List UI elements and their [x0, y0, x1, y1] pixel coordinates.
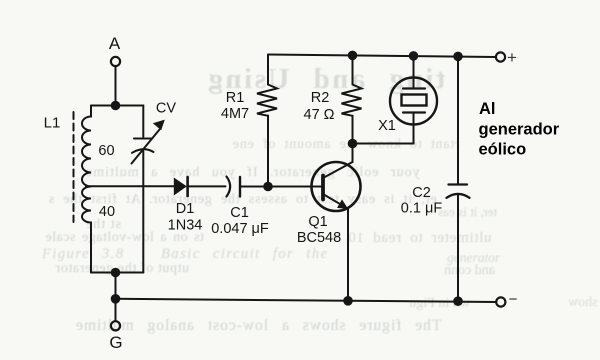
svg-text:G: G — [109, 333, 122, 352]
svg-text:0.1 μF: 0.1 μF — [401, 201, 443, 217]
svg-text:Q1: Q1 — [308, 214, 327, 230]
svg-text:CV: CV — [156, 101, 176, 117]
svg-text:X1: X1 — [378, 118, 396, 134]
svg-text:R1: R1 — [226, 90, 245, 106]
svg-text:60: 60 — [98, 143, 114, 159]
svg-text:−: − — [509, 291, 518, 308]
svg-text:40: 40 — [99, 204, 115, 220]
svg-text:A: A — [109, 34, 121, 53]
svg-text:C2: C2 — [412, 185, 431, 201]
svg-text:C1: C1 — [230, 205, 249, 221]
svg-text:R2: R2 — [311, 90, 330, 106]
svg-text:1N34: 1N34 — [168, 218, 203, 234]
svg-text:generador: generador — [479, 121, 560, 139]
svg-text:4M7: 4M7 — [221, 106, 249, 122]
svg-text:+: + — [507, 48, 517, 67]
svg-text:0.047 μF: 0.047 μF — [211, 221, 269, 237]
svg-text:eólico: eólico — [479, 141, 527, 159]
svg-text:Al: Al — [479, 100, 496, 118]
svg-text:L1: L1 — [44, 115, 61, 132]
svg-text:47 Ω: 47 Ω — [304, 107, 335, 123]
svg-text:D1: D1 — [176, 201, 195, 217]
svg-text:BC548: BC548 — [297, 230, 341, 246]
